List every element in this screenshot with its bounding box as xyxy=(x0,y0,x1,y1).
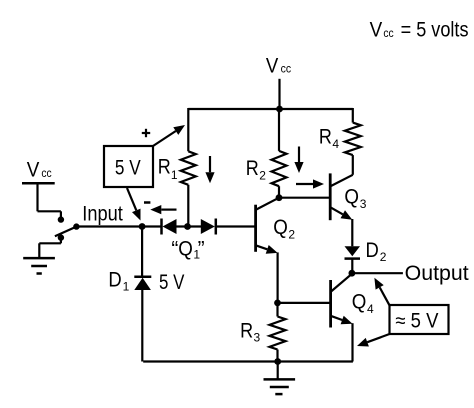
svg-text:R: R xyxy=(240,320,253,343)
svg-text:3: 3 xyxy=(254,330,261,344)
svg-text:2: 2 xyxy=(380,250,387,264)
svg-text:Input: Input xyxy=(82,202,123,225)
svg-text:Q: Q xyxy=(344,185,359,208)
svg-text:3: 3 xyxy=(360,197,367,211)
svg-text:V: V xyxy=(370,18,383,41)
svg-text:Output: Output xyxy=(405,262,469,285)
svg-text:Q: Q xyxy=(178,237,193,260)
svg-text:5 V: 5 V xyxy=(115,156,141,179)
svg-text:R: R xyxy=(158,155,171,178)
svg-text:V: V xyxy=(266,54,278,77)
svg-text:≈ 5 V: ≈ 5 V xyxy=(395,309,438,332)
svg-text:D: D xyxy=(108,269,121,292)
svg-text:V: V xyxy=(27,159,40,182)
svg-text:cc: cc xyxy=(383,26,393,40)
svg-text:2: 2 xyxy=(288,228,295,242)
svg-text:cc: cc xyxy=(41,166,51,180)
svg-text:5 V: 5 V xyxy=(159,271,184,294)
svg-text:1: 1 xyxy=(171,168,178,182)
svg-text:Q: Q xyxy=(273,216,288,239)
svg-text:4: 4 xyxy=(332,137,339,151)
svg-text:”: ” xyxy=(198,237,205,260)
svg-text:D: D xyxy=(366,239,379,262)
svg-text:Q: Q xyxy=(352,290,367,313)
svg-text:R: R xyxy=(246,157,259,180)
svg-text:= 5 volts: = 5 volts xyxy=(401,18,469,41)
svg-text:1: 1 xyxy=(123,279,130,293)
svg-text:2: 2 xyxy=(259,168,266,182)
svg-text:cc: cc xyxy=(281,62,292,76)
svg-text:4: 4 xyxy=(367,302,374,316)
svg-text:R: R xyxy=(319,126,332,149)
